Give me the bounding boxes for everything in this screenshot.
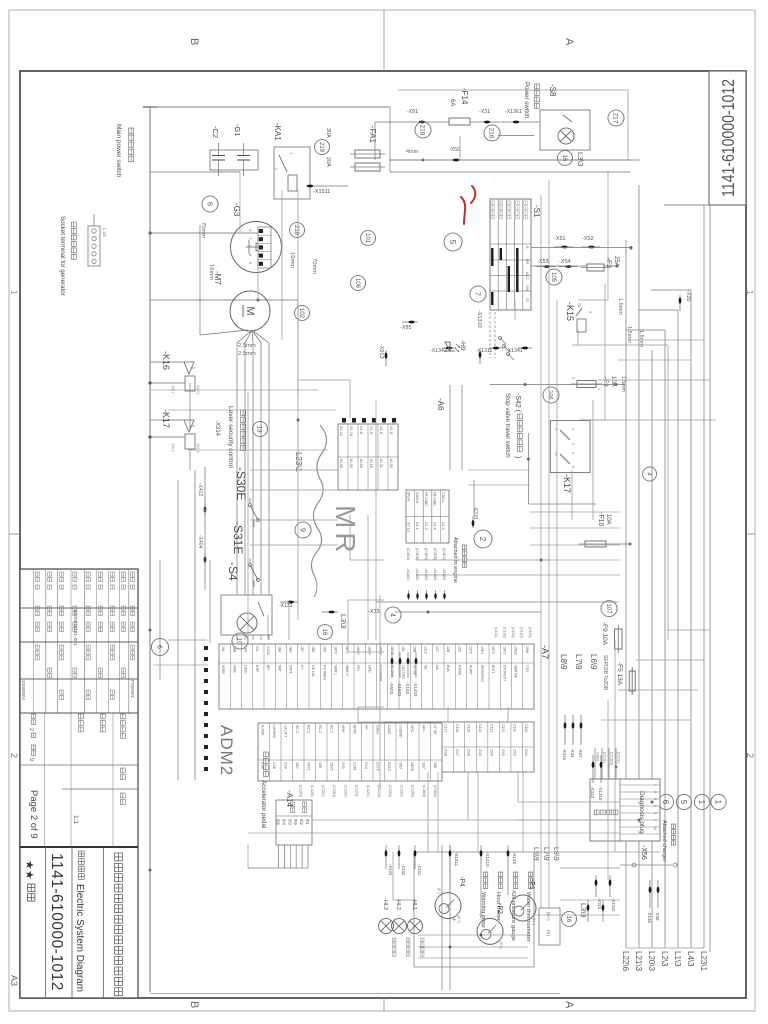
- svg-text:RESERVG: RESERVG: [480, 665, 484, 682]
- svg-text:-X133: -X133: [279, 603, 293, 609]
- svg-text:LIMO: LIMO: [244, 665, 248, 674]
- svg-text:LWD: LWD: [367, 665, 371, 673]
- svg-text:LA.LIFT: LA.LIFT: [284, 725, 288, 738]
- svg-text:16: 16: [565, 916, 571, 923]
- svg-text:SE: SE: [424, 665, 428, 670]
- svg-text:HFC-: HFC-: [410, 725, 414, 734]
- svg-text:-X1604: -X1604: [433, 568, 437, 580]
- svg-text:(C111): (C111): [494, 627, 498, 637]
- svg-text:6: 6: [155, 645, 162, 649]
- svg-text:CAN1: CAN1: [596, 752, 600, 762]
- svg-text:-X56: -X56: [640, 845, 647, 860]
- svg-text:+: +: [450, 918, 456, 922]
- svg-text:NBR L: NBR L: [334, 665, 338, 675]
- svg-text:-H9: -H9: [459, 340, 466, 351]
- svg-text:NBR H: NBR H: [345, 665, 349, 676]
- svg-text:-X1602: -X1602: [415, 568, 419, 580]
- svg-text:KL50: KL50: [359, 459, 363, 468]
- svg-text:X1-6: X1-6: [379, 426, 383, 434]
- svg-text:18\3: 18\3: [399, 762, 403, 769]
- svg-text:(C162): (C162): [503, 627, 507, 638]
- svg-text:12K1: 12K1: [480, 646, 484, 654]
- svg-text:X1-1: X1-1: [415, 522, 419, 530]
- svg-text:9\2: 9\2: [299, 819, 304, 825]
- svg-text:21\4: 21\4: [364, 762, 368, 769]
- svg-text:21\4: 21\4: [490, 749, 494, 756]
- svg-text:Water thermometer: Water thermometer: [525, 892, 531, 942]
- svg-text:(C125): (C125): [310, 785, 314, 797]
- svg-text:3: 3: [653, 812, 657, 814]
- svg-text:-X1603: -X1603: [397, 682, 402, 697]
- svg-text:217: 217: [612, 113, 619, 124]
- svg-text:21\6: 21\6: [467, 749, 471, 756]
- svg-text:X1-12: X1-12: [339, 426, 343, 436]
- svg-text:-K17: -K17: [562, 474, 572, 493]
- svg-text:30A: 30A: [325, 128, 331, 138]
- svg-text:-X95: -X95: [400, 325, 412, 331]
- svg-text:105: 105: [550, 272, 556, 283]
- svg-text:2: 2: [571, 377, 575, 379]
- svg-text:KUPP: KUPP: [469, 665, 473, 675]
- svg-text:2: 2: [9, 753, 19, 758]
- svg-text:-S30E: -S30E: [234, 467, 248, 500]
- svg-text:CAN-H: CAN-H: [415, 492, 419, 504]
- svg-text:(K-): (K-): [437, 888, 441, 895]
- svg-text:219: 219: [318, 142, 324, 153]
- svg-text:15G3: 15G3: [514, 646, 518, 655]
- svg-text:9: 9: [588, 311, 593, 314]
- svg-text:KL31: KL31: [379, 459, 383, 468]
- svg-text:20A: 20A: [325, 157, 331, 167]
- svg-text:9: 9: [298, 528, 305, 532]
- svg-text:L22\6: L22\6: [621, 951, 630, 972]
- svg-text:1: 1: [714, 800, 723, 805]
- svg-text:(C121): (C121): [617, 752, 621, 763]
- svg-text:9\3: 9\3: [287, 819, 292, 825]
- svg-text:-F10: -F10: [597, 512, 604, 527]
- svg-text:21\72: 21\72: [376, 762, 380, 771]
- svg-text:-X141: -X141: [417, 864, 422, 876]
- svg-text:(C113): (C113): [511, 627, 515, 638]
- svg-text:X1-2: X1-2: [441, 522, 445, 530]
- svg-text:A3: A3: [9, 975, 19, 986]
- svg-text:4mm: 4mm: [406, 149, 419, 155]
- svg-text:(C115): (C115): [528, 627, 532, 638]
- svg-text:-X1342: -X1342: [430, 348, 447, 354]
- svg-text:9\1: 9\1: [305, 819, 310, 825]
- svg-text:RC.1: RC.1: [330, 725, 334, 733]
- svg-text:(C12H): (C12H): [332, 785, 336, 798]
- svg-text:13: 13: [256, 425, 263, 433]
- svg-text:SC.4: SC.4: [295, 725, 299, 733]
- svg-text:#F#+: #F#+: [341, 725, 345, 733]
- svg-text:12T0: 12T0: [469, 646, 473, 654]
- svg-text:106: 106: [547, 390, 553, 399]
- svg-text:4: 4: [645, 472, 651, 476]
- svg-text:L6\9: L6\9: [589, 654, 598, 670]
- svg-text:-X34: -X34: [570, 748, 575, 758]
- svg-text:HF+: HF+: [422, 725, 426, 732]
- svg-text:5: 5: [653, 798, 657, 800]
- svg-text:13(-): 13(-): [171, 385, 176, 394]
- svg-text:106: 106: [354, 278, 360, 289]
- svg-text:1.5mm: 1.5mm: [620, 376, 626, 392]
- svg-text:(C120): (C120): [321, 785, 325, 797]
- svg-text:102: 102: [298, 308, 304, 319]
- svg-text:L3\3: L3\3: [579, 903, 588, 918]
- svg-text:): ): [514, 456, 521, 458]
- svg-text:(K): (K): [546, 930, 551, 937]
- svg-text:21\9: 21\9: [284, 762, 288, 769]
- svg-text:L21\3: L21\3: [634, 951, 643, 972]
- svg-text:18A: 18A: [277, 646, 281, 653]
- svg-text:15B: 15B: [412, 646, 416, 653]
- svg-text:L1\3: L1\3: [673, 951, 682, 967]
- svg-text:A+: A+: [300, 665, 304, 669]
- svg-text:Stop valve travel switch: Stop valve travel switch: [504, 393, 511, 458]
- svg-text:C3\7: C3\7: [525, 665, 529, 672]
- svg-text:2: 2: [653, 819, 657, 821]
- svg-text:20060804: 20060804: [21, 680, 26, 701]
- svg-text:158: 158: [433, 762, 437, 768]
- svg-text:-HL3: -HL3: [382, 898, 388, 910]
- svg-text:21\3: 21\3: [501, 749, 505, 756]
- svg-text:15\72: 15\72: [330, 762, 334, 771]
- svg-text:-F9 10A: -F9 10A: [601, 622, 608, 646]
- svg-text:A.ADK: A.ADK: [261, 725, 265, 736]
- svg-text:-A6: -A6: [436, 398, 445, 411]
- svg-text:-K16: -K16: [161, 351, 171, 370]
- svg-text:Page 2 of 9: Page 2 of 9: [28, 790, 39, 839]
- svg-text:NBR BK: NBR BK: [514, 665, 518, 679]
- svg-text:(C1B0): (C1B0): [433, 785, 437, 798]
- svg-text:(C12D): (C12D): [299, 785, 303, 798]
- svg-text:KL30: KL30: [349, 459, 353, 468]
- svg-text:-X97: -X97: [578, 748, 583, 758]
- svg-text:1: 1: [9, 290, 19, 295]
- svg-text:2: 2: [478, 537, 487, 542]
- svg-text:-X20: -X20: [685, 290, 691, 302]
- svg-text:P060801: P060801: [130, 680, 135, 699]
- svg-text:-X142: -X142: [401, 864, 406, 876]
- svg-text:70mm: 70mm: [200, 222, 206, 238]
- svg-text:1: 1: [653, 784, 657, 786]
- svg-text:-X143: -X143: [388, 864, 393, 876]
- svg-text:L20\3: L20\3: [647, 951, 656, 972]
- svg-text:L8\9: L8\9: [552, 847, 559, 861]
- svg-text:2: 2: [28, 728, 34, 731]
- svg-text:2: 2: [745, 753, 755, 758]
- svg-text:AF#S: AF#S: [353, 725, 357, 734]
- svg-text:9: 9: [653, 791, 657, 793]
- svg-text:21\2: 21\2: [341, 762, 345, 769]
- svg-text:-F14: -F14: [460, 88, 469, 105]
- svg-text:L23\1: L23\1: [699, 951, 708, 972]
- svg-text:(C12J): (C12J): [355, 785, 359, 797]
- svg-text:-X1601: -X1601: [406, 568, 410, 580]
- svg-text:CAN-L: CAN-L: [441, 492, 445, 503]
- svg-text:(C12G): (C12G): [377, 785, 381, 798]
- svg-text:RC.2: RC.2: [318, 725, 322, 733]
- svg-text:-A7: -A7: [540, 645, 550, 659]
- svg-text:-X53: -X53: [537, 259, 549, 265]
- svg-text:18T0: 18T0: [334, 646, 338, 654]
- svg-text:S: S: [248, 229, 252, 232]
- svg-text:12B: 12B: [446, 646, 450, 653]
- svg-text:LGGND: LGGND: [399, 725, 403, 738]
- svg-text:21\6: 21\6: [261, 762, 265, 769]
- svg-text:X1-13: X1-13: [407, 522, 411, 532]
- svg-text:SEP03B To2DB: SEP03B To2DB: [602, 655, 608, 691]
- svg-text:B: B: [188, 38, 200, 45]
- svg-text:A: A: [248, 254, 252, 257]
- svg-text:C113: C113: [490, 724, 494, 732]
- svg-text:-X315: -X315: [562, 748, 567, 761]
- svg-text:-P1: -P1: [528, 879, 535, 890]
- svg-text:6: 6: [661, 800, 670, 805]
- svg-text:1: 1: [745, 290, 755, 295]
- svg-text:(K+): (K+): [457, 916, 461, 924]
- svg-text:L2\3: L2\3: [660, 951, 669, 967]
- svg-text:L7\9: L7\9: [542, 847, 549, 861]
- svg-text:X1-5: X1-5: [389, 426, 393, 434]
- svg-text:KAJS0\SP: KAJS0\SP: [379, 665, 383, 682]
- svg-text:1.5mm: 1.5mm: [626, 326, 632, 343]
- svg-text:-S4: -S4: [226, 562, 240, 581]
- svg-text:4: 4: [653, 805, 657, 807]
- svg-text:HF-GND: HF-GND: [432, 492, 436, 506]
- svg-text:9: 9: [28, 758, 34, 761]
- svg-text:-X1411: -X1411: [454, 852, 459, 867]
- svg-text:-X1603: -X1603: [424, 568, 428, 580]
- svg-text:21\1: 21\1: [524, 749, 528, 756]
- svg-text:1: 1: [571, 428, 575, 430]
- svg-text:C114: C114: [478, 724, 482, 732]
- svg-text:16: 16: [321, 629, 327, 636]
- svg-text:125: 125: [457, 646, 461, 652]
- svg-text:-X54: -X54: [559, 259, 571, 265]
- svg-text:10A: 10A: [605, 514, 611, 525]
- svg-text:-FA1: -FA1: [368, 126, 377, 143]
- svg-text:7: 7: [473, 292, 480, 296]
- svg-text:(K+): (K+): [532, 918, 536, 926]
- svg-text:-C2: -C2: [211, 126, 220, 138]
- svg-text:Socket terminal for generator: Socket terminal for generator: [59, 216, 66, 296]
- svg-text:-S1: -S1: [532, 205, 541, 218]
- svg-text:C116: C116: [455, 724, 459, 732]
- svg-text:MR: MR: [330, 505, 361, 557]
- svg-text:Attached charger: Attached charger: [661, 820, 667, 862]
- svg-text:5: 5: [571, 443, 575, 445]
- svg-text:LF SE: LF SE: [433, 725, 437, 735]
- svg-text:-X52: -X52: [582, 236, 594, 242]
- svg-text:-X91: -X91: [407, 109, 418, 115]
- svg-text:70mm: 70mm: [311, 258, 317, 274]
- svg-text:L6\9: L6\9: [532, 847, 539, 861]
- svg-text:ACC: ACC: [525, 272, 529, 280]
- svg-text:C112: C112: [501, 724, 505, 732]
- svg-text:(C131): (C131): [603, 752, 607, 763]
- svg-text:6: 6: [205, 202, 212, 206]
- svg-text:4: 4: [388, 613, 395, 617]
- svg-text:10: 10: [236, 637, 243, 645]
- svg-text:KL15: KL15: [369, 459, 373, 468]
- svg-text:LAGRID: LAGRID: [272, 725, 276, 739]
- svg-text:15T0: 15T0: [491, 646, 495, 654]
- svg-text:1141-610000-1012: 1141-610000-1012: [48, 853, 65, 991]
- svg-text:-A14: -A14: [285, 790, 294, 807]
- svg-text:C115: C115: [467, 724, 471, 732]
- svg-text:L 15: L 15: [102, 228, 107, 237]
- svg-text:25A: 25A: [613, 256, 619, 267]
- svg-text:Electric System Diagram: Electric System Diagram: [74, 884, 86, 992]
- svg-text:21\61: 21\61: [353, 762, 357, 771]
- svg-text:9\4: 9\4: [281, 819, 286, 825]
- svg-text:-X404: -X404: [197, 535, 203, 549]
- svg-text:Lever security control: Lever security control: [227, 406, 234, 468]
- svg-text:(C1B9): (C1B9): [422, 785, 426, 798]
- svg-text:5: 5: [448, 240, 457, 245]
- svg-text:21L: 21L: [255, 646, 259, 652]
- svg-text:PID: PID: [356, 665, 360, 671]
- svg-text:21\5: 21\5: [478, 749, 482, 756]
- svg-text:HGB: HGB: [232, 665, 236, 673]
- svg-text:FG WAHL: FG WAHL: [322, 665, 326, 681]
- svg-text:-K15: -K15: [565, 302, 575, 321]
- svg-text:9: 9: [554, 428, 558, 430]
- svg-text:-X913: -X913: [378, 344, 384, 359]
- svg-text:18G3: 18G3: [379, 646, 383, 655]
- svg-text:Accelerator pedal: Accelerator pedal: [260, 780, 267, 828]
- svg-text:VREF: VREF: [221, 665, 225, 674]
- svg-text:-X1361: -X1361: [505, 109, 522, 115]
- svg-text:-X31: -X31: [479, 109, 490, 115]
- svg-text:L23\1: L23\1: [294, 452, 303, 473]
- svg-text:Diagnosis plug: Diagnosis plug: [638, 791, 645, 834]
- svg-text:B: B: [188, 1001, 200, 1008]
- svg-text:A: A: [563, 1001, 575, 1009]
- svg-text:L: L: [248, 245, 252, 247]
- svg-text:KWSE: KWSE: [457, 665, 461, 676]
- svg-text:BVA: BVA: [446, 665, 450, 672]
- svg-text:(C1E5): (C1E5): [433, 548, 437, 561]
- svg-text:14: 14: [653, 826, 657, 830]
- svg-text:1:1: 1:1: [72, 815, 79, 824]
- svg-text:ON: ON: [525, 285, 529, 291]
- svg-text:SL: SL: [577, 303, 582, 309]
- svg-text:159: 159: [318, 762, 322, 768]
- svg-text:LECTER: LECTER: [401, 665, 405, 679]
- svg-text:X1-4: X1-4: [432, 522, 436, 530]
- svg-text:186: 186: [311, 646, 315, 652]
- svg-text:-X603: -X603: [389, 682, 394, 695]
- svg-text:-X149: -X149: [512, 852, 517, 865]
- svg-text:RC.3: RC.3: [307, 725, 311, 733]
- svg-text:-M7: -M7: [213, 271, 222, 285]
- svg-text:(C12A): (C12A): [388, 785, 392, 798]
- svg-text:16: 16: [561, 155, 567, 162]
- svg-text:-S42 (: -S42 (: [514, 393, 521, 413]
- svg-text:127: 127: [435, 646, 439, 652]
- svg-text:(K-): (K-): [512, 890, 516, 897]
- svg-text:14(+): 14(+): [196, 443, 201, 453]
- svg-text:-X314: -X314: [214, 420, 220, 437]
- svg-text:(C124): (C124): [343, 785, 347, 797]
- svg-text:C: C: [248, 237, 252, 240]
- svg-text:L3\3: L3\3: [339, 614, 348, 629]
- svg-text:18G4: 18G4: [367, 646, 371, 655]
- svg-text:216: 216: [488, 128, 495, 139]
- svg-text:KL30: KL30: [389, 459, 393, 468]
- svg-text:13(-): 13(-): [171, 443, 176, 452]
- svg-text:(C12B): (C12B): [411, 785, 415, 798]
- svg-text:GAS1: GAS1: [376, 725, 380, 734]
- svg-text:(C1E5): (C1E5): [415, 548, 419, 561]
- svg-text:16mm: 16mm: [208, 264, 214, 280]
- svg-text:C111: C111: [513, 724, 517, 732]
- svg-text:(K+): (K+): [546, 912, 551, 921]
- svg-text:9\5: 9\5: [293, 819, 298, 825]
- svg-text:6: 6: [571, 466, 575, 468]
- svg-text:(C1E3): (C1E3): [424, 548, 428, 561]
- svg-text:21\8: 21\8: [272, 762, 276, 769]
- svg-text:18\7: 18\7: [295, 762, 299, 769]
- svg-text:Main power switch: Main power switch: [115, 124, 122, 178]
- svg-text:-X1410: -X1410: [485, 852, 490, 867]
- svg-text:-X315: -X315: [590, 786, 595, 799]
- svg-text:L7\9: L7\9: [574, 654, 583, 670]
- svg-text:-K17: -K17: [161, 409, 171, 428]
- svg-text:21\8: 21\8: [444, 749, 448, 756]
- svg-text:L3\3: L3\3: [576, 152, 585, 167]
- svg-text:1.5mm: 1.5mm: [617, 298, 623, 315]
- svg-text:185: 185: [322, 646, 326, 652]
- svg-text:-X1311: -X1311: [476, 348, 492, 354]
- svg-text:SIG-K: SIG-K: [407, 492, 411, 502]
- svg-text:Power switch: Power switch: [523, 82, 530, 119]
- svg-text:-X1315: -X1315: [611, 898, 616, 912]
- svg-text:M: M: [244, 306, 256, 315]
- svg-text:-S31E: -S31E: [231, 521, 245, 554]
- svg-text:15\71: 15\71: [307, 762, 311, 771]
- svg-text:9\6: 9\6: [276, 819, 281, 825]
- svg-text:ESP: ESP: [255, 665, 259, 673]
- svg-text:21\13: 21\13: [387, 762, 391, 771]
- svg-text:-F3: -F3: [602, 377, 609, 387]
- svg-text:X1-8: X1-8: [359, 426, 363, 434]
- svg-text:-X36: -X36: [655, 911, 660, 921]
- svg-text:-X315: -X315: [597, 898, 602, 910]
- svg-text:(C1E2): (C1E2): [442, 548, 446, 561]
- svg-text:1: 1: [597, 388, 601, 390]
- svg-text:6A: 6A: [449, 99, 455, 106]
- svg-text:(C110): (C110): [520, 627, 524, 638]
- svg-text:218: 218: [419, 125, 426, 136]
- svg-text:16\7: 16\7: [422, 762, 426, 769]
- svg-text:107: 107: [605, 604, 611, 615]
- svg-text:X1-15: X1-15: [349, 426, 353, 436]
- svg-text:FP-: FP-: [364, 725, 368, 731]
- svg-text:(C12Z): (C12Z): [399, 785, 403, 798]
- svg-text:-X1310: -X1310: [476, 310, 482, 328]
- svg-text:SBT: SBT: [277, 665, 281, 673]
- svg-text:A: A: [563, 38, 575, 46]
- svg-text:21\7: 21\7: [455, 749, 459, 756]
- svg-text:ADM2: ADM2: [217, 725, 236, 776]
- svg-text:-KA1: -KA1: [273, 123, 282, 141]
- svg-text:-F5 13A: -F5 13A: [616, 662, 623, 686]
- svg-text:-X1341: -X1341: [506, 348, 523, 354]
